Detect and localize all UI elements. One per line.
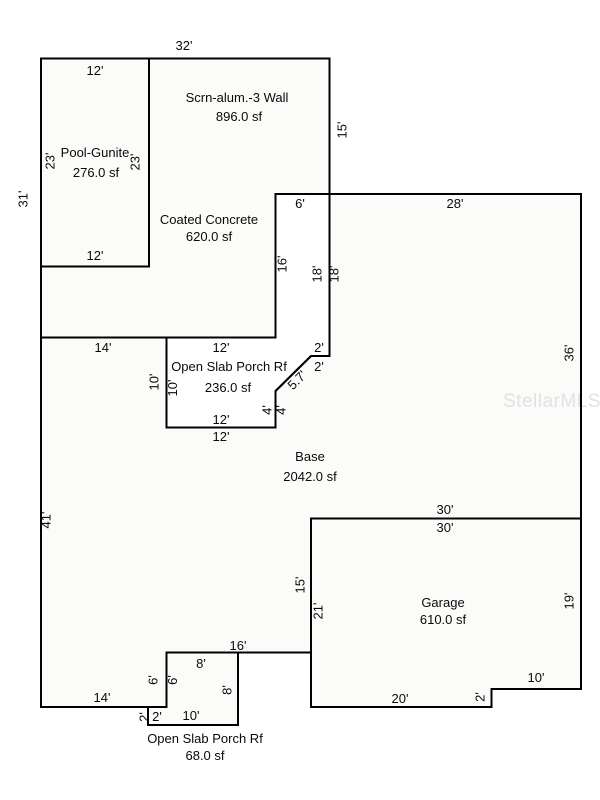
svg-text:8': 8' xyxy=(196,656,206,671)
svg-text:18': 18' xyxy=(327,266,342,283)
svg-text:21': 21' xyxy=(311,603,326,620)
svg-text:30': 30' xyxy=(437,520,454,535)
svg-text:12': 12' xyxy=(87,63,104,78)
svg-text:2042.0 sf: 2042.0 sf xyxy=(283,469,337,484)
svg-text:10': 10' xyxy=(147,374,162,391)
svg-text:19': 19' xyxy=(562,593,577,610)
svg-text:236.0 sf: 236.0 sf xyxy=(205,380,252,395)
svg-text:276.0 sf: 276.0 sf xyxy=(73,165,120,180)
svg-text:36': 36' xyxy=(562,345,577,362)
svg-text:16': 16' xyxy=(230,638,247,653)
region fill: garage xyxy=(311,519,581,708)
svg-text:2': 2' xyxy=(473,692,488,702)
svg-text:4': 4' xyxy=(260,405,275,415)
svg-text:4': 4' xyxy=(274,405,289,415)
svg-text:8': 8' xyxy=(220,685,235,695)
svg-text:12': 12' xyxy=(87,248,104,263)
svg-text:28': 28' xyxy=(447,196,464,211)
outline: base polygon xyxy=(41,194,581,707)
svg-text:14': 14' xyxy=(95,340,112,355)
svg-text:31': 31' xyxy=(16,191,31,208)
svg-text:2': 2' xyxy=(152,709,162,724)
outline: open slab porch 236 sf xyxy=(167,194,330,428)
svg-text:2': 2' xyxy=(314,359,324,374)
svg-text:610.0 sf: 610.0 sf xyxy=(420,612,467,627)
svg-text:23': 23' xyxy=(43,153,58,170)
svg-text:StellarMLS: StellarMLS xyxy=(503,391,600,412)
svg-text:10': 10' xyxy=(528,670,545,685)
svg-text:12': 12' xyxy=(213,412,230,427)
svg-text:18': 18' xyxy=(310,266,325,283)
svg-text:6': 6' xyxy=(295,196,305,211)
svg-text:12': 12' xyxy=(213,340,230,355)
svg-text:10': 10' xyxy=(165,380,180,397)
svg-text:15': 15' xyxy=(335,122,350,139)
svg-text:14': 14' xyxy=(94,690,111,705)
svg-text:30': 30' xyxy=(437,502,454,517)
svg-text:Scrn-alum.-3 Wall: Scrn-alum.-3 Wall xyxy=(186,90,289,105)
svg-text:23': 23' xyxy=(128,154,143,171)
outline: garage xyxy=(311,519,581,708)
svg-text:12': 12' xyxy=(213,429,230,444)
svg-text:2': 2' xyxy=(314,340,324,355)
svg-text:2': 2' xyxy=(137,712,152,722)
svg-text:620.0 sf: 620.0 sf xyxy=(186,229,233,244)
region fill: base xyxy=(41,194,581,707)
svg-text:Pool-Gunite: Pool-Gunite xyxy=(61,145,130,160)
svg-text:Coated Concrete: Coated Concrete xyxy=(160,212,258,227)
svg-text:6': 6' xyxy=(165,675,180,685)
outline: screen enclosure area (32 x 31 with 6/16 step) xyxy=(41,59,330,338)
svg-text:32': 32' xyxy=(176,38,193,53)
region fill: bottom porch xyxy=(148,653,238,726)
svg-text:15': 15' xyxy=(293,577,308,594)
svg-text:16': 16' xyxy=(275,256,290,273)
svg-text:68.0 sf: 68.0 sf xyxy=(185,748,224,763)
svg-text:Open Slab Porch Rf: Open Slab Porch Rf xyxy=(171,359,287,374)
svg-text:Base: Base xyxy=(295,449,325,464)
svg-text:20': 20' xyxy=(392,691,409,706)
svg-text:10': 10' xyxy=(183,708,200,723)
svg-text:Garage: Garage xyxy=(421,595,464,610)
outline: open slab porch 68 sf xyxy=(148,653,238,726)
outline: pool-gunite rectangle xyxy=(41,59,149,267)
svg-text:896.0 sf: 896.0 sf xyxy=(216,109,263,124)
svg-text:41': 41' xyxy=(39,512,54,529)
region fill: screened pool/deck area xyxy=(41,59,330,338)
svg-text:Open Slab Porch Rf: Open Slab Porch Rf xyxy=(147,731,263,746)
svg-text:6': 6' xyxy=(146,675,161,685)
